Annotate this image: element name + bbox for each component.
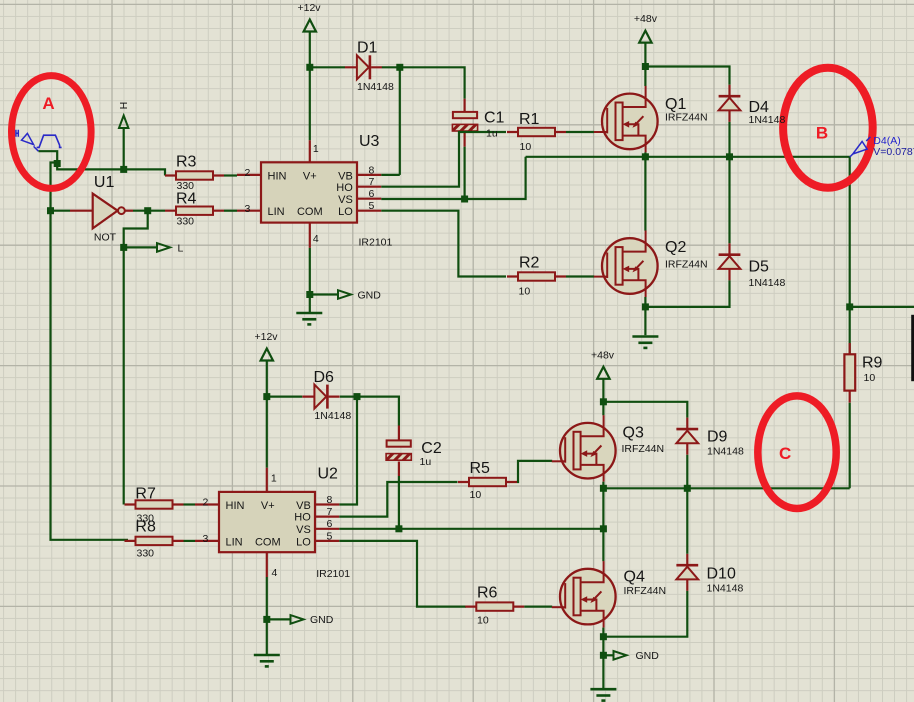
wire VB riser to bootstrap node xyxy=(399,67,401,175)
svg-text:U3: U3 xyxy=(359,133,380,150)
svg-text:D9: D9 xyxy=(707,429,728,446)
wire node B stub to right edge xyxy=(850,306,914,308)
junction Q4 source row xyxy=(600,633,607,640)
wire +48v to Q1 drain xyxy=(644,43,646,86)
U3 pin stubs xyxy=(237,140,381,248)
svg-text:2: 2 xyxy=(202,497,208,509)
ground symbol under U2 xyxy=(254,655,280,666)
svg-text:IR2101: IR2101 xyxy=(316,568,350,580)
svg-text:H: H xyxy=(117,102,129,110)
junction C1/VS xyxy=(461,196,468,203)
wire Q2 source row to D5 anode xyxy=(645,280,729,307)
svg-text:5: 5 xyxy=(369,200,375,212)
svg-text:8: 8 xyxy=(327,494,333,506)
svg-text:3: 3 xyxy=(202,533,208,545)
svg-text:IRFZ44N: IRFZ44N xyxy=(665,259,708,271)
wire R6 to Q4 gate xyxy=(524,605,552,607)
diode D1 xyxy=(345,55,382,79)
svg-text:10: 10 xyxy=(520,141,532,153)
ground symbol under Q2 xyxy=(632,337,658,348)
resistor R8 xyxy=(125,537,184,545)
svg-text:D10: D10 xyxy=(707,566,736,583)
resistor R2 xyxy=(507,272,566,280)
wire node A to R3 and H flag xyxy=(57,164,165,176)
svg-text:Q4: Q4 xyxy=(624,569,645,586)
wire H flag to HIN net xyxy=(123,128,125,169)
net flag GND at U2 xyxy=(291,615,304,624)
transistor Q1 (IRFZ44N body) xyxy=(602,94,658,150)
svg-text:1u: 1u xyxy=(420,456,432,468)
wire Q3 source to node C row xyxy=(602,482,604,489)
svg-text:Q3: Q3 xyxy=(623,425,644,442)
ellipse annotation A xyxy=(12,76,92,189)
svg-text:6: 6 xyxy=(327,518,333,530)
junction Q1 source on node B xyxy=(642,153,649,160)
svg-text:6: 6 xyxy=(369,188,375,200)
voltage probe pointer D4(A) (blue) xyxy=(850,137,871,157)
svg-text:VB: VB xyxy=(338,170,353,182)
svg-text:D1: D1 xyxy=(357,40,378,57)
junction +48v bottom / D9 branch xyxy=(600,398,607,405)
wire U1 output to R4 xyxy=(133,210,165,212)
svg-text:R4: R4 xyxy=(176,190,197,207)
wire D5 cathode up to node B row xyxy=(728,157,730,243)
svg-text:R7: R7 xyxy=(135,486,156,503)
svg-text:330: 330 xyxy=(177,216,195,228)
svg-text:R9: R9 xyxy=(862,355,883,372)
wire C1 bottom to VS net xyxy=(464,147,466,199)
wire Q4 ground drop xyxy=(602,637,604,688)
ground symbol under U3 xyxy=(296,313,322,324)
junction D6 / U2 VB riser xyxy=(354,393,361,400)
svg-text:+48v: +48v xyxy=(634,13,658,25)
wire U2 COM to ground xyxy=(266,577,268,654)
ground symbol under Q4 xyxy=(590,689,616,700)
capacitor C2 xyxy=(386,426,411,477)
svg-text:L: L xyxy=(178,242,184,254)
transistor Q3 (IRFZ44N body) xyxy=(560,423,616,479)
transistor Q4 (IRFZ44N body) xyxy=(560,569,616,625)
off-sheet component edge (black bar) xyxy=(911,315,914,381)
diode D10 xyxy=(676,554,698,591)
wire +48v branch to D9 cathode xyxy=(603,402,687,418)
wire +12v rail down to U3 pin 1 xyxy=(309,31,311,140)
wire U2 VS net to midpoint column xyxy=(339,528,603,530)
svg-text:D5: D5 xyxy=(749,259,770,276)
wire D1 cathode to bootstrap node xyxy=(382,67,465,99)
wire U1 output down to L flag and lower HIN xyxy=(124,211,148,505)
wire R5 to Q3 gate xyxy=(517,461,552,482)
resistor R3 xyxy=(165,171,224,179)
junction +12v / D1 anode xyxy=(306,64,313,71)
junction bootstrap node VB/D1/C1 xyxy=(396,64,403,71)
svg-text:C1: C1 xyxy=(484,110,505,127)
svg-text:HO: HO xyxy=(294,512,311,524)
junction U1 output / L branch xyxy=(144,207,151,214)
wire VS pin 6 net xyxy=(381,157,525,199)
generator probe pointer (blue) xyxy=(22,133,39,151)
svg-text:1N4148: 1N4148 xyxy=(707,583,744,595)
wire D6 anode stub xyxy=(267,396,303,398)
svg-text:GND: GND xyxy=(636,650,660,662)
svg-text:Q1: Q1 xyxy=(665,96,686,113)
wire ground net label stub (U3) xyxy=(310,293,338,295)
svg-text:GND: GND xyxy=(358,289,382,301)
wire +12v bottom rail to U2 pin 1 xyxy=(266,361,268,468)
wire Q1-Q2 midpoint column xyxy=(644,157,646,231)
wire output node B row xyxy=(526,157,850,307)
transistor Q1 internal symbol xyxy=(594,86,646,152)
svg-text:IRFZ44N: IRFZ44N xyxy=(624,585,667,597)
svg-text:R8: R8 xyxy=(135,519,156,536)
wire D6 cathode to C2/VB node xyxy=(340,397,399,426)
net flag GND at U3 xyxy=(338,290,351,299)
wire C2 bottom to VS net (bottom) xyxy=(398,476,400,529)
svg-text:IRFZ44N: IRFZ44N xyxy=(622,443,665,455)
svg-text:HO: HO xyxy=(336,182,353,194)
svg-text:IRFZ44N: IRFZ44N xyxy=(665,112,708,124)
wire D9 anode to node C row xyxy=(686,455,688,489)
junction H label tap xyxy=(120,166,127,173)
svg-text:7: 7 xyxy=(327,506,333,518)
op-amp driver U2 IR2101 body xyxy=(219,492,315,552)
svg-text:R2: R2 xyxy=(519,255,540,272)
svg-text:C2: C2 xyxy=(421,440,442,457)
wire LO pin 5 to R2 xyxy=(381,211,506,277)
svg-text:V+: V+ xyxy=(303,170,317,182)
wire R1 to Q1 gate xyxy=(566,131,594,133)
capacitor C1 xyxy=(452,99,477,147)
svg-text:10: 10 xyxy=(477,615,489,627)
svg-text:R6: R6 xyxy=(477,585,498,602)
resistor R5 xyxy=(458,478,517,486)
wire R2 to Q2 gate xyxy=(566,275,594,277)
wire U2 VB riser xyxy=(339,397,357,505)
power +48v (bottom) xyxy=(597,367,609,379)
svg-text:1u: 1u xyxy=(486,128,498,140)
wire generator output xyxy=(39,151,58,163)
wire inverter input xyxy=(51,210,71,212)
svg-text:2: 2 xyxy=(244,167,250,179)
resistor R7 xyxy=(125,500,184,508)
power +48v (top) xyxy=(639,31,651,43)
svg-text:+12v: +12v xyxy=(298,2,322,14)
transistor Q4 internal symbol xyxy=(552,561,604,628)
net flag H (up arrow) xyxy=(119,116,128,129)
net flag L xyxy=(157,243,170,252)
wire U2 HO to R5 xyxy=(339,482,457,517)
transistor Q3 internal symbol xyxy=(552,415,604,482)
svg-text:+12v: +12v xyxy=(255,331,279,343)
wire R9 bottom to node C xyxy=(849,403,851,489)
wire node C row to R9 bottom xyxy=(603,487,849,489)
generator waveform symbol (blue trapezoid) xyxy=(37,135,62,147)
junction +48v / D4 branch xyxy=(642,63,649,70)
svg-text:1N4148: 1N4148 xyxy=(707,446,744,458)
svg-text:LIN: LIN xyxy=(226,536,243,548)
wire R3 to U3 HIN xyxy=(224,174,237,176)
svg-text:COM: COM xyxy=(297,206,323,218)
svg-text:HIN: HIN xyxy=(268,170,287,182)
wire R8 to U2 LIN xyxy=(184,540,196,542)
svg-text:U2: U2 xyxy=(318,466,339,483)
svg-text:C: C xyxy=(779,444,791,463)
inverter U1 (NOT gate) xyxy=(70,194,133,229)
junction C2 / VS bottom xyxy=(395,525,402,532)
junction U2 ground tap xyxy=(263,616,270,623)
diode D9 xyxy=(676,418,698,455)
wire +48v branch to D4 cathode xyxy=(645,67,729,85)
svg-text:1N4148: 1N4148 xyxy=(749,277,786,289)
wire D1 anode from +12v junction xyxy=(310,66,345,68)
wire Q2 ground drop xyxy=(644,307,646,335)
svg-text:R5: R5 xyxy=(470,460,491,477)
wire D4 anode to node B row xyxy=(728,122,730,157)
svg-text:VB: VB xyxy=(296,500,311,512)
svg-text:GND: GND xyxy=(310,614,334,626)
wire node B down to R9 xyxy=(849,307,851,354)
diode D5 xyxy=(719,243,741,280)
svg-text:3: 3 xyxy=(244,203,250,215)
junction Q3 source / node C xyxy=(600,485,607,492)
wire VB pin 8 to bootstrap riser xyxy=(381,174,400,176)
svg-text:1N4148: 1N4148 xyxy=(749,114,786,126)
svg-text:COM: COM xyxy=(255,536,281,548)
diode D6 xyxy=(302,385,339,409)
wire R4 to U3 LIN xyxy=(224,210,237,212)
wire D10 cathode up to node C row xyxy=(686,488,688,553)
resistor R6 xyxy=(465,602,524,610)
junction +12v / D6 anode xyxy=(263,393,270,400)
resistor R4 xyxy=(165,207,224,215)
junction VS bottom on midpoint column xyxy=(600,525,607,532)
junction D9 anode on node C xyxy=(684,485,691,492)
svg-text:Q2: Q2 xyxy=(665,239,686,256)
net flag GND at Q4 xyxy=(614,651,627,660)
svg-text:1N4148: 1N4148 xyxy=(357,81,394,93)
wire U2 LO to R6 xyxy=(339,541,466,607)
transistor Q2 (IRFZ44N body) xyxy=(602,238,658,294)
junction inverter input tap xyxy=(47,207,54,214)
diode D4 xyxy=(719,85,741,122)
svg-text:VS: VS xyxy=(296,524,311,536)
power +12v (top) xyxy=(304,20,316,32)
U2 pin stubs xyxy=(195,468,339,577)
svg-text:LO: LO xyxy=(338,206,353,218)
wire HO pin 7 to R1 xyxy=(381,132,506,187)
junction Q4 ground flag tap xyxy=(600,652,607,659)
svg-text:V+: V+ xyxy=(261,500,275,512)
wire ground net label stub (U2) xyxy=(267,618,291,620)
wire Q4 source to ground row xyxy=(602,628,604,637)
svg-text:330: 330 xyxy=(137,548,155,560)
ellipse annotation B xyxy=(783,68,873,188)
junction node A (generator/HIN net) xyxy=(54,160,61,167)
wire Q1 source to output node B row xyxy=(644,152,646,156)
svg-text:HIN: HIN xyxy=(226,500,245,512)
svg-text:VS: VS xyxy=(338,194,353,206)
svg-text:10: 10 xyxy=(470,489,482,501)
junction D4 anode on node B xyxy=(726,153,733,160)
junction U3 ground tap xyxy=(306,291,313,298)
wire ground net label stub (Q4) xyxy=(603,654,613,656)
wire L flag stub xyxy=(124,246,157,248)
transistor Q2 internal symbol xyxy=(594,231,646,298)
wire node A to inverter column xyxy=(51,163,129,540)
resistor R9 (vertical) xyxy=(844,343,855,403)
wire Q4 source row to D10 anode xyxy=(603,591,687,637)
resistor R1 xyxy=(507,128,566,136)
generator name (partially hidden) xyxy=(16,130,18,137)
svg-text:LO: LO xyxy=(296,536,311,548)
svg-text:7: 7 xyxy=(369,176,375,188)
svg-text:1N4148: 1N4148 xyxy=(314,410,351,422)
svg-text:1: 1 xyxy=(313,143,319,155)
svg-text:U1: U1 xyxy=(94,174,115,191)
svg-text:V=0.0787: V=0.0787 xyxy=(873,146,914,158)
svg-text:B: B xyxy=(816,124,828,143)
svg-text:R3: R3 xyxy=(176,154,197,171)
op-amp driver U3 IR2101 body xyxy=(261,162,357,222)
svg-text:A: A xyxy=(42,94,54,113)
svg-text:NOT: NOT xyxy=(94,232,117,244)
svg-text:8: 8 xyxy=(369,164,375,176)
svg-text:10: 10 xyxy=(864,372,876,384)
power +12v (bottom) xyxy=(261,349,273,361)
svg-text:4: 4 xyxy=(313,233,319,245)
ellipse annotation C xyxy=(758,396,836,509)
wire Q3-Q4 midpoint column xyxy=(602,488,604,561)
wire U3 COM to ground xyxy=(309,248,311,312)
svg-text:R1: R1 xyxy=(519,111,540,128)
svg-text:LIN: LIN xyxy=(268,206,285,218)
junction node B / right stub xyxy=(846,303,853,310)
svg-text:4: 4 xyxy=(272,567,278,579)
junction L label tap xyxy=(120,244,127,251)
wire +48v bottom to Q3 drain xyxy=(602,379,604,416)
svg-text:1: 1 xyxy=(271,472,277,484)
svg-text:+48v: +48v xyxy=(591,349,615,361)
svg-text:IR2101: IR2101 xyxy=(359,237,393,249)
junction Q2 source / ground xyxy=(642,303,649,310)
svg-text:5: 5 xyxy=(327,530,333,542)
wire R7 to U2 HIN xyxy=(184,503,196,505)
svg-text:10: 10 xyxy=(519,286,531,298)
svg-text:D6: D6 xyxy=(314,369,335,386)
wire Q2 source to ground row xyxy=(644,297,646,307)
